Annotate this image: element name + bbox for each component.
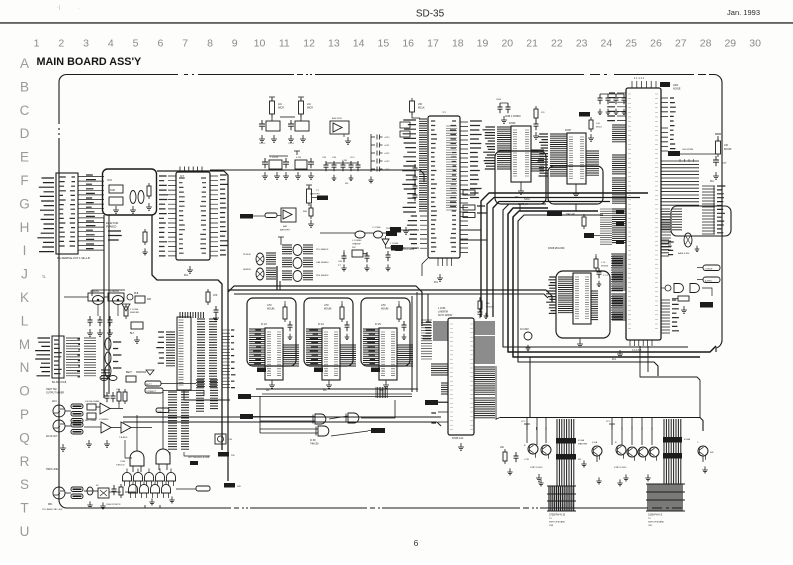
svg-text:CONNECT: CONNECT xyxy=(146,391,157,393)
IC U41 left pins xyxy=(306,329,322,365)
svg-text:IC 25: IC 25 xyxy=(375,323,381,326)
IC1 left pin labels xyxy=(159,176,168,256)
resistor R41 xyxy=(124,298,151,319)
svg-text:FFL: FFL xyxy=(184,274,189,277)
svg-text:AUTO ARRAY: AUTO ARRAY xyxy=(438,314,453,317)
svg-text:N: N xyxy=(20,360,30,375)
svg-text:8: 8 xyxy=(207,38,213,50)
svg-text:0.7M: 0.7M xyxy=(296,157,301,159)
border top edge xyxy=(66,75,722,83)
mux bank lower combs xyxy=(168,392,189,449)
comb right of U17 xyxy=(222,330,236,388)
svg-text:29: 29 xyxy=(724,38,736,50)
op-amp U4 battery xyxy=(280,208,296,232)
inductor L65 xyxy=(372,227,383,238)
svg-text:VCC: VCC xyxy=(107,179,112,182)
keyscan labels 2 xyxy=(614,467,627,486)
inductor pills J1 xyxy=(71,400,100,423)
svg-text:TO: TO xyxy=(648,518,651,520)
IC U601 left pins upper xyxy=(607,93,626,121)
svg-text:STBY F-R13: STBY F-R13 xyxy=(530,467,543,469)
svg-text:MICR: MICR xyxy=(307,108,313,110)
svg-text:AUX2 OUT: AUX2 OUT xyxy=(46,435,58,438)
svg-text:SW: SW xyxy=(710,452,713,454)
audio out wires 1 xyxy=(65,403,123,411)
flag DAC xyxy=(547,211,575,216)
flag 1200 xyxy=(156,408,169,413)
jack J3 mic xyxy=(48,487,65,506)
svg-text:+D22: +D22 xyxy=(384,153,390,155)
svg-text:NET-CHAN: NET-CHAN xyxy=(85,419,97,422)
IC U601 right pins upper xyxy=(661,98,676,151)
svg-text:19: 19 xyxy=(477,38,489,50)
svg-text:30: 30 xyxy=(749,38,761,50)
svg-text:T: T xyxy=(20,501,28,516)
comb col right U608 g1 xyxy=(611,254,623,291)
svg-text:B2-SW-CN-B: B2-SW-CN-B xyxy=(52,381,67,384)
comb small right xyxy=(661,214,720,283)
wire gates down xyxy=(145,505,160,508)
svg-text:1 1 1 1 1: 1 1 1 1 1 xyxy=(634,76,645,80)
inverter U6 xyxy=(382,239,399,249)
IC U605 left pins g3 xyxy=(441,383,448,394)
svg-text:T.B-BUS: T.B-BUS xyxy=(119,437,128,439)
inductor pills J3 xyxy=(71,487,93,499)
bus drop x508 xyxy=(508,208,716,352)
svg-text:B: B xyxy=(20,79,29,94)
caps column left of CPU xyxy=(400,122,418,234)
IC U605 left pins g2 xyxy=(431,364,448,375)
svg-text:+D24: +D24 xyxy=(384,169,390,171)
svg-text:SEMUS: SEMUS xyxy=(243,269,251,271)
IC U601 right pins lower xyxy=(661,240,674,256)
svg-text:MOUM: MOUM xyxy=(324,309,331,311)
IC U606 ground xyxy=(515,182,524,199)
svg-text:74HCO2: 74HCO2 xyxy=(116,465,125,467)
coupling boxes J1 xyxy=(87,404,96,419)
svg-text:110B 1 COM61: 110B 1 COM61 xyxy=(505,116,521,118)
gate tree inputs xyxy=(125,392,163,458)
svg-text:IC 23: IC 23 xyxy=(261,323,267,326)
mux bank right combs xyxy=(196,380,218,411)
svg-text:+D23: +D23 xyxy=(384,161,390,163)
svg-text:R: R xyxy=(20,454,30,469)
keyscan bus xyxy=(500,418,703,432)
IC U42 RAM body xyxy=(375,323,397,380)
svg-text:BE27: BE27 xyxy=(126,371,133,374)
grid row letters A-U xyxy=(19,56,30,539)
bus drop x503 xyxy=(503,204,688,347)
IC U606 right pins xyxy=(531,150,544,171)
XOR gate U50b xyxy=(316,426,329,436)
svg-text:1 COM: 1 COM xyxy=(438,308,445,310)
svg-text:L7M: L7M xyxy=(267,305,272,307)
flag CONNECT dac xyxy=(425,400,448,405)
IC U601 right pins mid xyxy=(661,209,670,230)
svg-text:DM: DM xyxy=(147,298,151,301)
IC U1 body xyxy=(176,172,210,260)
svg-text:IC 24: IC 24 xyxy=(318,323,324,326)
IC U605 right pins g1 xyxy=(474,322,495,334)
svg-text:C-MASS: C-MASS xyxy=(90,290,99,293)
mux bank bottom wires xyxy=(170,452,210,460)
svg-text:U: U xyxy=(20,524,30,539)
svg-text:PL/BLR: PL/BLR xyxy=(243,254,251,256)
resistor R610 xyxy=(500,447,519,475)
svg-text:IC607: IC607 xyxy=(565,129,572,132)
dense block top xyxy=(180,312,203,318)
svg-text:20: 20 xyxy=(501,38,513,50)
svg-text:BATTERY: BATTERY xyxy=(310,193,320,196)
svg-text:F1B: F1B xyxy=(228,439,233,441)
border right edge xyxy=(716,83,722,353)
gate outputs xyxy=(149,486,210,505)
svg-text:DAC-W: DAC-W xyxy=(566,213,575,216)
svg-text:MOUM: MOUM xyxy=(381,309,388,311)
IC U41 right pins xyxy=(340,345,356,366)
transformer T601 xyxy=(678,233,699,255)
sub-board labels xyxy=(106,179,122,240)
flag BATT out xyxy=(312,196,328,201)
bus left vertical pair xyxy=(104,215,109,398)
svg-text:22: 22 xyxy=(551,38,563,50)
svg-text:6: 6 xyxy=(157,38,163,50)
mic preamp box xyxy=(96,485,109,498)
IC U601 left pins g3 xyxy=(612,178,626,203)
regulator boxes xyxy=(64,293,133,301)
IC U607 right pins xyxy=(586,151,599,175)
svg-text:17: 17 xyxy=(427,38,439,50)
bus outline RAM1 xyxy=(247,298,296,366)
title MAIN BOARD ASS'Y xyxy=(37,56,143,68)
jack J2 aux out 2 xyxy=(46,420,65,438)
svg-text:10 COM: 10 COM xyxy=(520,329,529,331)
decoupling caps row xyxy=(322,157,361,185)
bus outline U608 xyxy=(556,271,610,338)
flag PL9 xyxy=(394,246,415,251)
svg-text:MICR: MICR xyxy=(278,108,284,110)
header rule xyxy=(0,22,793,24)
svg-text:BLT: BLT xyxy=(130,333,135,335)
transformer vcc xyxy=(278,237,284,245)
bus keyscan feed xyxy=(529,357,531,417)
svg-text:B 03A: B 03A xyxy=(684,438,691,441)
svg-text:C77: C77 xyxy=(722,162,727,165)
IC U608 right pins xyxy=(591,291,598,320)
svg-text:11: 11 xyxy=(279,38,290,50)
mic cap xyxy=(112,484,124,498)
wire U601 bottom down xyxy=(640,346,700,417)
IC U40 ground xyxy=(266,380,275,392)
svg-text:C 2.2: C 2.2 xyxy=(603,275,609,277)
transformer row 1 xyxy=(282,245,329,256)
inductor L15 xyxy=(100,371,136,382)
IC U10 CPU body xyxy=(428,111,460,258)
choke comb pair 1 xyxy=(266,253,276,279)
op-amp U2 xyxy=(330,117,351,144)
IC U41 ground xyxy=(323,380,332,392)
IC U1 right pins xyxy=(210,175,229,256)
IC U41 RAM body xyxy=(318,323,340,380)
svg-text:24: 24 xyxy=(601,38,613,50)
inductor L64 xyxy=(352,231,365,246)
resistor R606 xyxy=(579,112,603,141)
flag BUTT xyxy=(145,381,196,386)
IC U605 right pins g4 xyxy=(474,366,496,420)
xtal box X2 xyxy=(134,293,145,303)
svg-text:13: 13 xyxy=(328,38,340,50)
svg-text:PLB: PLB xyxy=(134,293,139,295)
svg-text:PL6 SEMUS: PL6 SEMUS xyxy=(316,249,329,251)
svg-text:10: 10 xyxy=(254,38,266,50)
svg-text:G: G xyxy=(19,196,30,211)
bus outline U607 xyxy=(548,166,603,204)
NAND row 2 xyxy=(129,480,171,498)
svg-text:MASTER: MASTER xyxy=(578,443,588,446)
svg-text:C COM6: C COM6 xyxy=(372,227,381,229)
svg-text:MCLK: MCLK xyxy=(418,107,425,110)
flag BATT in xyxy=(240,213,281,219)
svg-text:DM: DM xyxy=(352,247,356,249)
IC U10 left pins dense xyxy=(402,119,427,212)
IC U608 body xyxy=(548,248,591,324)
svg-text:VCC: VCC xyxy=(606,421,611,423)
capacitor C41 xyxy=(345,321,350,340)
wire audio bus xyxy=(200,416,430,418)
bus outline U606 xyxy=(495,151,546,204)
keyscan vcc marks xyxy=(521,421,615,427)
svg-text:C60 MCRN: C60 MCRN xyxy=(682,149,694,151)
IC U40 below label xyxy=(257,368,271,373)
border left edge xyxy=(59,75,66,509)
IC U16 body xyxy=(177,317,191,390)
svg-text:C: C xyxy=(20,103,30,118)
IC U601 left pins g4 xyxy=(612,209,626,243)
bus audio out xyxy=(123,417,441,426)
svg-text:E: E xyxy=(20,150,29,165)
gate U602a xyxy=(661,284,712,297)
svg-text:PL9 SELB: PL9 SELB xyxy=(404,249,415,251)
svg-text:TL: TL xyxy=(42,275,46,279)
border bottom edge xyxy=(66,507,682,509)
svg-text:BUTT: BUTT xyxy=(146,384,152,386)
svg-text:CA4 SEMUS: CA4 SEMUS xyxy=(316,261,329,264)
connector CN1 labels xyxy=(37,178,54,252)
connector CN7 block xyxy=(646,484,685,511)
svg-text:0.1M: 0.1M xyxy=(342,160,347,162)
IC U608 ground xyxy=(577,338,583,347)
osc wires xyxy=(92,290,125,316)
NAND row 1 xyxy=(123,468,176,486)
svg-text:MOUM: MOUM xyxy=(601,266,608,268)
svg-text:MCLK: MCLK xyxy=(596,127,603,129)
svg-text:C246: C246 xyxy=(120,461,126,463)
IC U607 ground xyxy=(573,184,579,197)
wire RAM horizontals xyxy=(256,389,418,394)
IC U605 right pins g2 xyxy=(474,337,495,363)
svg-text:S 0/A: S 0/A xyxy=(592,441,598,444)
XOR gate big A xyxy=(116,445,144,472)
keyscan bundle 1 xyxy=(557,419,574,486)
keyscan bundle 2 xyxy=(664,419,681,484)
IC U16 pin comb left xyxy=(156,332,175,366)
svg-text:OUTPUT MIXER: OUTPUT MIXER xyxy=(46,392,64,395)
IC U601 left pins g5 xyxy=(612,254,626,290)
svg-text:L7M: L7M xyxy=(381,305,386,307)
svg-text:L COM64: L COM64 xyxy=(352,240,362,242)
bus U601 to RA601 xyxy=(661,159,699,205)
svg-text:IC605 LA4: IC605 LA4 xyxy=(452,437,464,440)
box DM xyxy=(352,247,369,257)
flag ADMUS xyxy=(238,394,412,399)
IC U42 left pins xyxy=(363,329,379,365)
bus drop x518 xyxy=(518,215,658,376)
svg-text:10M: 10M xyxy=(110,189,115,192)
diode D7 xyxy=(136,370,154,375)
svg-text:SWITCH BOARD: SWITCH BOARD xyxy=(648,521,665,524)
svg-text:S7SB-PW-N-15: S7SB-PW-N-15 xyxy=(549,515,566,517)
gate label xyxy=(310,440,319,446)
svg-text:Q: Q xyxy=(19,430,30,445)
svg-text:C1-BBUS: C1-BBUS xyxy=(99,419,109,421)
svg-text:MIC: MIC xyxy=(48,503,53,506)
svg-text:21: 21 xyxy=(526,38,538,50)
svg-text:1 COOK: 1 COOK xyxy=(270,157,279,159)
osc caps xyxy=(87,316,143,343)
wire RAM bus vertical right xyxy=(412,292,417,392)
svg-text:26: 26 xyxy=(650,38,662,50)
IC U1 ground xyxy=(184,266,193,277)
svg-text:2: 2 xyxy=(58,38,64,50)
svg-text:L60: L60 xyxy=(724,144,729,147)
connector CN3 pin field xyxy=(66,338,96,377)
svg-text:·|: ·| xyxy=(57,5,60,11)
IC U17 pin comb xyxy=(197,319,217,387)
svg-text:K: K xyxy=(20,290,29,305)
bus drop x513 xyxy=(513,211,700,357)
svg-text:FFL: FFL xyxy=(710,181,715,183)
svg-text:4D: 4D xyxy=(96,485,99,487)
connector CN3 body xyxy=(52,336,64,378)
svg-text:LPF: LPF xyxy=(213,294,218,297)
svg-text:PG-SEMPLE-OUT 1 SE-1-B: PG-SEMPLE-OUT 1 SE-1-B xyxy=(57,256,90,260)
wire DAC to keyscan xyxy=(496,418,500,420)
resistor R45 xyxy=(206,289,219,321)
IC U40 RAM body xyxy=(261,323,283,380)
bus main horiz y286 xyxy=(228,286,422,326)
svg-text:MOUM: MOUM xyxy=(486,307,493,309)
svg-text:Jan. 1993: Jan. 1993 xyxy=(727,8,760,17)
svg-text:UPC7060GR-I-E-1BB: UPC7060GR-I-E-1BB xyxy=(188,457,210,459)
flag RESET2 xyxy=(240,414,253,419)
IC U601 body xyxy=(626,88,661,340)
svg-text:STBY F-R14: STBY F-R14 xyxy=(614,467,627,469)
caps row top right xyxy=(598,94,627,115)
connector CN3 labels xyxy=(35,338,50,376)
svg-text:COMLE: COMLE xyxy=(705,269,713,271)
svg-text:2 COM6: 2 COM6 xyxy=(130,309,139,311)
cap C611 xyxy=(710,156,727,183)
caps C605 C606 xyxy=(496,99,511,123)
svg-text:1: 1 xyxy=(34,38,40,50)
IC U40 right pins xyxy=(283,345,299,366)
bus addr horizontal xyxy=(493,202,610,318)
svg-text:L7M: L7M xyxy=(324,305,329,307)
svg-text:C9 0.1: C9 0.1 xyxy=(288,143,295,145)
svg-text:16: 16 xyxy=(402,38,414,50)
svg-text:A-MWC: A-MWC xyxy=(705,280,713,283)
XOR gate big B xyxy=(156,443,170,470)
IC U601 top pins xyxy=(632,76,681,91)
IC U40 left pins xyxy=(249,329,265,365)
svg-text:5: 5 xyxy=(133,38,139,50)
svg-text:IC 08: IC 08 xyxy=(310,440,316,442)
cap chain column xyxy=(368,134,390,183)
svg-text:+D21: +D21 xyxy=(384,145,390,147)
svg-text:FFL: FFL xyxy=(612,358,617,361)
transformer row 2 xyxy=(282,258,329,269)
mic grounds xyxy=(42,501,121,511)
mux bank label xyxy=(188,457,210,465)
svg-text:15: 15 xyxy=(378,38,390,50)
svg-text:+D20: +D20 xyxy=(384,137,390,139)
svg-text:BAGLK FFL: BAGLK FFL xyxy=(678,252,691,255)
svg-text:I: I xyxy=(23,243,27,258)
svg-text:HIGH LINE: HIGH LINE xyxy=(46,468,58,471)
svg-text:27: 27 xyxy=(675,38,687,50)
svg-text:F: F xyxy=(20,173,28,188)
svg-text:MOUR: MOUR xyxy=(724,148,732,151)
dcdc wires xyxy=(320,233,394,256)
IC1 left pins xyxy=(168,176,176,256)
svg-text:74HC08: 74HC08 xyxy=(310,444,319,446)
XOR gate U50a xyxy=(313,413,359,424)
svg-text:PWABCD: PWABCD xyxy=(106,226,117,229)
transformer down wires xyxy=(277,266,280,290)
resistor R611 xyxy=(715,134,732,157)
svg-text:PLB SEMUS: PLB SEMUS xyxy=(316,275,329,277)
svg-text:12: 12 xyxy=(303,38,315,50)
flag C60 xyxy=(668,149,716,156)
resistor network RN2 xyxy=(663,437,691,459)
mic wires xyxy=(65,486,136,493)
resistor array RA601 xyxy=(702,186,725,234)
svg-text:L: L xyxy=(21,313,29,328)
svg-text:2 COM6: 2 COM6 xyxy=(390,243,399,245)
svg-text:IC7: IC7 xyxy=(180,174,185,178)
connector CN1 bottom label xyxy=(42,256,90,279)
bus outline sub-board xyxy=(103,169,157,215)
IC U606 left pins xyxy=(483,127,512,169)
svg-text:4: 4 xyxy=(108,38,114,50)
svg-text:AUX: AUX xyxy=(52,400,57,403)
svg-text:MOUM: MOUM xyxy=(267,309,274,311)
svg-text:O: O xyxy=(19,384,30,399)
electrolytic C701 xyxy=(520,329,532,351)
keyscan verticals 2 xyxy=(612,418,652,446)
IC U601 bottom pins xyxy=(612,340,652,361)
IC U606 ROM body xyxy=(509,122,531,182)
sub-board grounds xyxy=(113,203,152,213)
wire U606 down xyxy=(520,204,576,211)
svg-text:18: 18 xyxy=(452,38,464,50)
svg-text:M: M xyxy=(19,337,30,352)
IC U607 ROM body xyxy=(565,129,586,184)
connector CN1 pins xyxy=(78,175,104,250)
connector CN7 labels xyxy=(648,515,665,528)
caps cluster J1 xyxy=(105,389,128,404)
resistor R620 xyxy=(672,296,713,313)
